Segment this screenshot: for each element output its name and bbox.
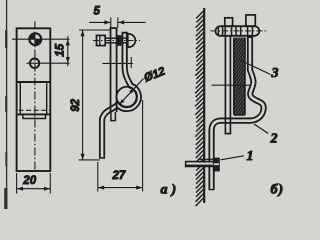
- reference cross tick: [130, 57, 132, 68]
- bolt shank right: [122, 37, 127, 39]
- bolt head: [97, 35, 106, 45]
- hole H2 crosshair: [27, 62, 70, 64]
- bar inner verticals: [218, 26, 252, 36]
- wall strap: upper S + pipe loop + horizontal run + leg: [212, 37, 264, 191]
- plate bend line: [17, 81, 51, 83]
- label 1 leader: [221, 156, 244, 160]
- clamp centerline: [211, 30, 267, 32]
- strap left run top cap: [110, 27, 118, 29]
- bolt shank left: [105, 37, 117, 39]
- pipe (riser) hatch: [234, 18, 245, 131]
- wall face line: [203, 8, 205, 203]
- svg-text:27: 27: [112, 170, 126, 182]
- strap left run line 2: [116, 28, 118, 112]
- inner edge left: [19, 83, 21, 114]
- wall bolt head: [213, 158, 220, 172]
- level reference line: [212, 84, 251, 86]
- front strap bottom cap: [225, 133, 232, 135]
- label 2 leader: [254, 124, 268, 134]
- hole H1 crosshair: [12, 38, 70, 40]
- front strap run: [224, 37, 226, 134]
- dome nut: [128, 34, 136, 48]
- dimension 92 line: [82, 30, 84, 160]
- bolt centerline: [93, 40, 140, 42]
- pipe edges: [233, 38, 235, 115]
- stud cap left: [225, 18, 233, 26]
- hole H2: [30, 59, 39, 68]
- dimension 15 line: [67, 36, 69, 66]
- svg-text:а): а): [161, 183, 181, 198]
- stud cap right: [246, 15, 255, 26]
- dim 92 top extension: [79, 29, 110, 31]
- svg-text:15: 15: [55, 43, 67, 56]
- svg-text:1: 1: [247, 149, 254, 164]
- wall hatch: [195, 11, 204, 207]
- bar plate outline: [17, 28, 51, 171]
- loop inner circle (pipe hole): [117, 87, 138, 108]
- wall bolt shank: [185, 161, 213, 163]
- bolt head facet: [99, 35, 101, 45]
- hole H1: [29, 33, 41, 45]
- label 3 leader: [239, 60, 271, 75]
- svg-text:20: 20: [22, 175, 36, 187]
- svg-text:5: 5: [94, 6, 101, 18]
- top clamp bolt bar: [215, 26, 259, 36]
- dim 92 bottom extension: [79, 159, 100, 161]
- svg-text:2: 2: [270, 131, 278, 146]
- strap free end tab: [111, 112, 116, 121]
- svg-text:92: 92: [70, 98, 82, 111]
- svg-text:б): б): [271, 183, 285, 198]
- bolt nut dark block: [116, 35, 121, 46]
- svg-text:3: 3: [271, 66, 279, 81]
- inner edge right: [46, 83, 48, 114]
- page fold edge line: [5, 0, 8, 209]
- dia 12 leader: [119, 79, 143, 105]
- dimension 20 extension lines: [17, 173, 51, 194]
- hook strap right run + loop + lower leg: [102, 32, 139, 159]
- plate lower bend line: [17, 113, 51, 115]
- wall bolt erase band: [185, 163, 213, 166]
- wall bolt end tick: [185, 161, 187, 167]
- plate centerline: [34, 22, 36, 172]
- washer line: [199, 158, 213, 160]
- dimension 27 extension lines: [98, 100, 143, 192]
- svg-text:Ø12: Ø12: [142, 65, 167, 84]
- level reference line: [103, 62, 134, 64]
- strap slot profile: [23, 114, 46, 118]
- strap left run line 1: [110, 28, 112, 112]
- hidden dashed line: [19, 109, 51, 111]
- dimension 5 lines: [89, 18, 146, 28]
